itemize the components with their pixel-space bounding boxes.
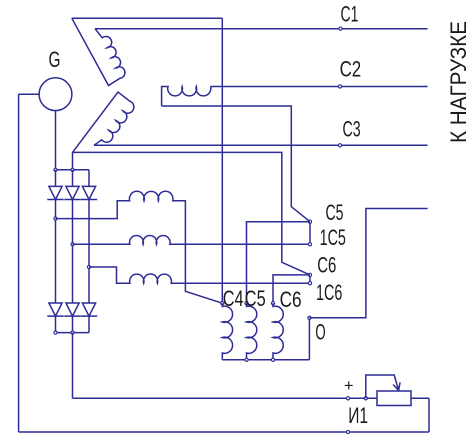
wire neutral to load	[309, 209, 427, 318]
wire diode VD1 anode	[55, 170, 57, 187]
terminal 1C5	[308, 243, 311, 246]
wire C2 line	[211, 86, 428, 88]
diode VD4	[49, 303, 62, 316]
wire winding2 outer to C6	[73, 152, 311, 275]
svg-text:G: G	[49, 47, 61, 72]
node bus1-L2 junction	[71, 168, 74, 171]
node coil C6 bottom	[271, 358, 274, 361]
rheostat arrow head	[393, 382, 400, 390]
wire diode VD3 anode	[88, 170, 90, 187]
wire VD4 cathode stub	[55, 316, 57, 333]
coil C6	[273, 303, 283, 360]
node rheostat tap junction	[364, 397, 367, 400]
wire И1 feed	[73, 397, 378, 399]
wire C3 line	[94, 144, 428, 146]
svg-text:O: O	[315, 320, 325, 345]
wire column3 vertical	[88, 200, 90, 304]
generator G1 circle	[39, 78, 72, 111]
wire center vertical to C4	[221, 18, 223, 303]
wire bottom-right riser	[428, 398, 430, 432]
terminal 1C6	[308, 282, 311, 285]
node column3 tap	[87, 265, 90, 268]
svg-text:C1: C1	[341, 1, 359, 26]
field coil LB wire to 1C5	[73, 235, 311, 244]
svg-text:1C5: 1C5	[320, 225, 346, 250]
terminal C3	[338, 144, 341, 147]
wire C6-1C6 link	[309, 275, 311, 283]
wire rectifier top bus	[56, 169, 90, 171]
svg-text:К НАГРУЗКЕ: К НАГРУЗКЕ	[446, 21, 471, 143]
node column2 tap	[71, 243, 74, 246]
stator winding L1	[72, 18, 125, 85]
node bus2 left	[54, 331, 57, 334]
diode VD1	[49, 186, 62, 199]
wire diode VD2 anode	[72, 170, 74, 187]
svg-text:C2: C2	[340, 57, 362, 82]
diode VD6	[82, 303, 95, 316]
wire rectifier bottom bus	[56, 332, 90, 334]
field coil LC wire to 1C6	[89, 267, 310, 283]
wire column1 vertical	[55, 200, 57, 304]
svg-text:+: +	[344, 376, 354, 395]
rheostat R1 body	[377, 391, 411, 406]
terminal C5	[308, 220, 311, 223]
terminal C6	[308, 273, 311, 276]
terminal И2	[346, 430, 349, 433]
wire to O terminal	[308, 318, 310, 360]
wire rectifier output down	[72, 333, 74, 399]
diode VD5	[66, 303, 79, 316]
wire winding2 corner down	[72, 152, 74, 169]
wire top horizontal	[72, 17, 223, 19]
wire column2 vertical	[72, 200, 74, 304]
stator winding L2	[73, 92, 134, 152]
node coil C5 bottom	[245, 358, 248, 361]
node coil C4 top	[221, 302, 224, 305]
svg-text:C5: C5	[326, 200, 344, 225]
wire C6 to coil C6	[273, 275, 310, 303]
node coil C6 top	[271, 302, 274, 305]
svg-text:C6: C6	[280, 287, 302, 312]
terminal И1 plus	[346, 397, 349, 400]
field coil LA	[56, 191, 223, 303]
wire C5-1C5 link	[309, 222, 311, 245]
wire C1 line	[95, 28, 428, 30]
wire generator bottom lead	[55, 111, 57, 170]
diode VD2	[66, 186, 79, 199]
terminal C2	[338, 85, 341, 88]
coil C4	[222, 303, 232, 360]
node bus1-G junction	[54, 168, 57, 171]
wire rheostat tap	[366, 375, 399, 398]
stator winding L3	[162, 87, 211, 107]
svg-text:C5: C5	[245, 286, 266, 311]
svg-text:C6: C6	[317, 253, 336, 278]
wire left vertical bus	[18, 94, 20, 432]
wire bottom bus	[19, 431, 429, 433]
svg-text:C3: C3	[343, 117, 361, 142]
wire VD6 cathode stub	[88, 316, 90, 333]
node column1 tap	[54, 217, 57, 220]
diode VD3	[82, 186, 95, 199]
terminal C1	[339, 27, 342, 30]
coil C5	[247, 303, 257, 360]
svg-text:И1: И1	[348, 403, 368, 428]
terminal O	[308, 316, 311, 319]
wire generator left lead	[19, 93, 39, 95]
wire VD5 cathode stub	[72, 316, 74, 333]
svg-text:1C6: 1C6	[316, 280, 342, 305]
svg-text:C4: C4	[223, 286, 244, 311]
node coil C5 top	[245, 302, 248, 305]
wire coil bottom bus	[222, 359, 309, 361]
node bus2 center	[71, 331, 74, 334]
wire C5 to coil C5	[247, 222, 311, 304]
wire rheostat right	[411, 397, 429, 399]
wire winding3 lower to C5	[162, 106, 310, 222]
